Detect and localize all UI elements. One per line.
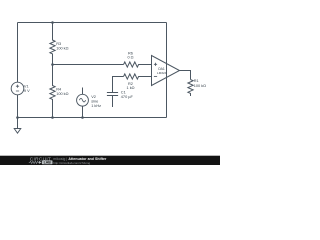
svg-text:R1: R1 [194, 79, 199, 83]
svg-text:V2: V2 [91, 95, 96, 99]
wire bottom rail [18, 117, 167, 119]
node dot top rail R3 [51, 21, 54, 24]
node dot R4 bottom [51, 116, 54, 119]
resistor R4 [50, 65, 55, 118]
node dot V2 bottom [81, 116, 84, 119]
wire C1 to R2 corner [113, 77, 124, 93]
op-amp minus input glyph [154, 75, 157, 77]
svg-text:1 kΩ: 1 kΩ [126, 86, 134, 90]
svg-text:100 kΩ: 100 kΩ [56, 92, 68, 96]
svg-text:V1: V1 [24, 85, 29, 89]
CircuitLab logo LAB box [42, 160, 53, 164]
svg-text:http://circuitlab.com/c7ckmg: http://circuitlab.com/c7ckmg [53, 161, 90, 165]
svg-text:100 kΩ: 100 kΩ [56, 47, 68, 51]
ground [14, 129, 21, 134]
resistor R6 [124, 62, 152, 67]
svg-text:R4: R4 [56, 87, 62, 91]
op-amp OA1 triangle [152, 56, 180, 86]
resistor R2 [124, 74, 152, 79]
node dot R3 R4 R6 junction [51, 63, 54, 66]
wire right vertical feedback (crosses op-amp) [166, 23, 168, 118]
capacitor C1 [107, 93, 118, 108]
CircuitLab logo zigzag [29, 161, 39, 163]
wire top rail [18, 22, 167, 24]
resistor R3 [50, 23, 55, 65]
svg-text:R3: R3 [56, 42, 61, 46]
voltage source V2 [82, 88, 84, 95]
svg-text:LAB: LAB [44, 161, 52, 165]
svg-text:LM324: LM324 [157, 71, 167, 75]
wire junction to R6 [53, 64, 124, 66]
node dot ground junction [16, 116, 19, 119]
svg-text:470 µF: 470 µF [121, 95, 134, 99]
CircuitLab logo arrow [39, 161, 42, 164]
svg-text:sine: sine [91, 100, 98, 104]
wire left vertical [17, 23, 19, 83]
op-amp plus input glyph [154, 63, 157, 66]
svg-text:1 kHz: 1 kHz [91, 104, 101, 108]
watermark footer bar [0, 156, 220, 165]
svg-text:C1: C1 [121, 90, 126, 94]
svg-text:9 V: 9 V [24, 89, 30, 93]
voltage source V1 [11, 82, 24, 95]
wire op-amp output to R1 [180, 71, 191, 80]
svg-text:0 Ω: 0 Ω [127, 55, 133, 59]
svg-text:100 kΩ: 100 kΩ [194, 84, 206, 88]
resistor R1 [188, 80, 193, 97]
